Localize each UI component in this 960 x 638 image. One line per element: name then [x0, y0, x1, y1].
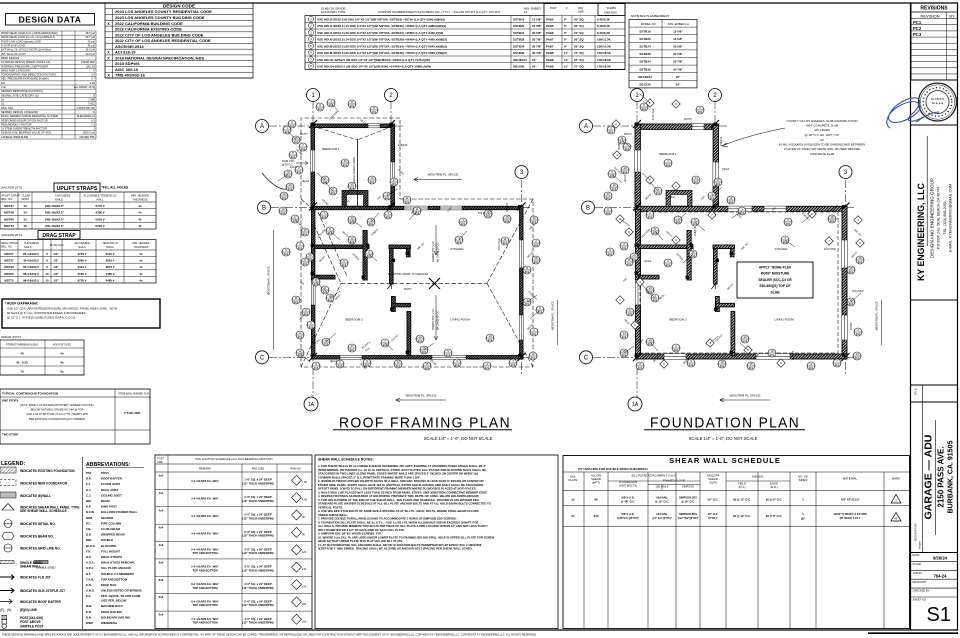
svg-text:301: 301 [856, 332, 861, 336]
svg-text:2022 CALIFORNIA EXISTING CODE: 2022 CALIFORNIA EXISTING CODE [115, 27, 182, 32]
svg-text:* ROOF DIAPHRAGM:: * ROOF DIAPHRAGM: [5, 302, 38, 306]
svg-text:10: 10 [23, 204, 27, 208]
svg-text:PC2: PC2 [913, 26, 922, 31]
svg-text:K.P.: K.P. [86, 505, 91, 509]
svg-text:301: 301 [385, 196, 390, 200]
svg-text:301: 301 [623, 170, 628, 174]
svg-text:20 5/8": 20 5/8" [673, 45, 683, 49]
svg-text:301: 301 [622, 246, 627, 250]
svg-text:4X10 HDR: 4X10 HDR [852, 290, 864, 293]
svg-text:DECK JOIST: DECK JOIST [101, 488, 119, 492]
svg-text:6195 #: 6195 # [78, 272, 87, 276]
main top wall [311, 206, 523, 209]
svg-text:PAD FOOTING SCHEDULE (ALL SOIL: PAD FOOTING SCHEDULE (ALL SOIL BEARING=1… [195, 457, 272, 461]
svg-text:TOP AND BOTTOM: TOP AND BOTTOM [192, 621, 218, 625]
grid bubble B [258, 201, 271, 214]
svg-text:301: 301 [674, 348, 679, 352]
svg-text:SEISMIC DESIGN CATEGORY: SEISMIC DESIGN CATEGORY [1, 110, 39, 114]
grid bubble 2 [385, 89, 398, 102]
grid line 1 [312, 101, 314, 398]
svg-text:21.7 psf: 21.7 psf [85, 35, 95, 39]
svg-text:DESIGN BY:: DESIGN BY: [913, 580, 928, 584]
svg-text:20 7/8": 20 7/8" [532, 38, 542, 42]
svg-text:PAB5: PAB5 [546, 17, 554, 21]
svg-text:301: 301 [383, 343, 388, 347]
svg-text:POST ABOVE: POST ABOVE [20, 620, 41, 624]
svg-text:REMARK: REMARK [199, 467, 211, 471]
svg-text:NAILS: NAILS [24, 245, 32, 249]
svg-text:(18) .18: (18) .18 [86, 64, 96, 68]
svg-text:SEALER (SCC-C3 CR: SEALER (SCC-C3 CR [758, 278, 792, 282]
svg-text:13: 13 [23, 211, 27, 215]
svg-text:10.0 psf: 10.0 psf [85, 52, 95, 56]
svg-text:WIND RISK CATEGORY: WIND RISK CATEGORY [1, 68, 31, 72]
svg-text:NAILS: NAILS [78, 245, 86, 249]
svg-text:6x6: 6x6 [159, 578, 164, 582]
svg-text:16 5/8": 16 5/8" [673, 37, 683, 41]
svg-text:ACI 318-19: ACI 318-19 [115, 50, 136, 55]
grid bubble 1A [304, 397, 318, 411]
svg-text:LIVING ROOM: LIVING ROOM [774, 317, 794, 321]
svg-text:No.C62776: No.C62776 [931, 97, 945, 101]
svg-text:SSTB16: SSTB16 [639, 29, 651, 33]
svg-text:20" SQ: 20" SQ [574, 17, 584, 21]
svg-text:WDS/TRIM PL. SPLICE: WDS/TRIM PL. SPLICE [551, 301, 555, 330]
svg-text:MIN. HEADER: MIN. HEADER [132, 241, 149, 245]
svg-text:6x6: 6x6 [159, 613, 164, 617]
svg-text:C.J.: C.J. [86, 493, 91, 497]
svg-text:26 7/8": 26 7/8" [673, 60, 683, 64]
svg-text:USE HDU11-SDS2.5 (30-SDS 1/4"X: USE HDU11-SDS2.5 (30-SDS 1/4"X2 1/2")(SB… [317, 58, 430, 62]
typical continuous foundation table [0, 389, 150, 444]
svg-text:SSTB24: SSTB24 [513, 31, 525, 35]
leader arc [262, 173, 292, 189]
wall openings [368, 124, 380, 128]
legend item INDICATES SHEAR WALL PANEL TYP [2, 504, 14, 511]
svg-text:CONCRETE SLAB: CONCRETE SLAB [810, 152, 834, 156]
svg-text:301: 301 [608, 252, 613, 256]
svg-text:1.8K: 1.8K [302, 481, 307, 484]
svg-text:SSTB28: SSTB28 [513, 38, 525, 42]
svg-text:301: 301 [314, 366, 319, 370]
svg-text:SSTB20: SSTB20 [639, 37, 651, 41]
svg-text:301: 301 [392, 182, 397, 186]
svg-text:SSTB34: SSTB34 [639, 60, 651, 64]
svg-text:301: 301 [783, 240, 788, 244]
sheet border top [0, 2, 958, 4]
svg-text:6.4K/8.3K: 6.4K/8.3K [597, 17, 611, 21]
svg-text:(E) , (N): (E) , (N) [0, 608, 11, 612]
roof plan detail tags [327, 99, 335, 107]
svg-text:2X8@16: 2X8@16 [720, 136, 723, 146]
svg-text:10K/11.5K: 10K/11.5K [597, 38, 612, 42]
svg-text:1A: 1A [308, 402, 315, 408]
svg-text:4x4 PST: 4x4 PST [792, 350, 795, 360]
svg-text:4x: 4x [138, 204, 142, 208]
svg-text:301: 301 [288, 187, 293, 191]
svg-text:POST: POST [157, 457, 164, 461]
svg-text:PL/SQ./LAG: PL/SQ./LAG [50, 244, 64, 247]
svg-text:EDGE NAILING: EDGE NAILING [101, 610, 123, 614]
svg-text:BEDROOM 2: BEDROOM 2 [669, 317, 687, 321]
drag strap table [0, 240, 156, 284]
grid line B [271, 207, 530, 209]
svg-text:JOB NO.: JOB NO. [913, 571, 924, 575]
shear wall schedule table [563, 456, 910, 629]
svg-text:301: 301 [328, 298, 333, 302]
svg-text:NAILING: NAILING [752, 475, 764, 479]
svg-text:SHEAR WALL: SHEAR WALL [20, 565, 41, 569]
svg-text:2022 CITY OF LOS ANGELES RESID: 2022 CITY OF LOS ANGELES RESIDENTIAL COD… [115, 38, 211, 43]
legend item INDICATES GRID LINE NO. [4, 544, 12, 552]
grid bubble B [582, 201, 595, 214]
svg-text:GRIPPLE POST: GRIPPLE POST [20, 625, 44, 629]
svg-text:STRENGTH/BREAK/UL/BLK: STRENGTH/BREAK/UL/BLK [6, 344, 39, 347]
svg-text:12 5/8": 12 5/8" [673, 29, 683, 33]
svg-text:27" SQ: 27" SQ [574, 65, 584, 69]
svg-text:INDICATES FLR JST: INDICATES FLR JST [20, 575, 51, 579]
svg-text:PC1: PC1 [913, 20, 922, 25]
svg-text:D.T.: D.T. [86, 572, 91, 576]
svg-text:301: 301 [343, 163, 348, 167]
grid line 2 [390, 101, 392, 212]
svg-text:BALLOON FRAMED WALL: BALLOON FRAMED WALL [101, 510, 138, 514]
svg-text:16.5 psf: 16.5 psf [85, 48, 95, 52]
svg-text:26 7/8": 26 7/8" [532, 44, 542, 48]
wing left wall [311, 124, 315, 210]
grid line C [269, 356, 530, 358]
svg-text:(E)4x4: (E)4x4 [624, 174, 627, 182]
svg-text:DBL.: DBL. [86, 538, 93, 542]
ridge dashed line [341, 282, 487, 284]
svg-text:MST72: MST72 [4, 224, 14, 228]
legend box [82, 457, 84, 629]
svg-text:301: 301 [386, 215, 391, 219]
svg-text:SCALE 1/4" = 1'-0", DO NOT SCA: SCALE 1/4" = 1'-0", DO NOT SCALE [424, 436, 493, 441]
svg-text:II: II [94, 68, 96, 72]
svg-text:301: 301 [367, 254, 372, 258]
svg-text:26.5 psf: 26.5 psf [85, 31, 95, 35]
interior wall vertical closet [363, 231, 367, 281]
svg-text:2X8@16: 2X8@16 [398, 144, 408, 147]
svg-text:THICKNESS: THICKNESS [134, 245, 149, 249]
svg-text:301: 301 [303, 262, 308, 266]
interior wall horizontal bedroom2 top [639, 245, 694, 249]
svg-text:301: 301 [676, 220, 681, 224]
svg-text:(E)4x4: (E)4x4 [302, 180, 310, 183]
svg-text:301: 301 [534, 260, 539, 264]
svg-text:14K: 14K [302, 568, 307, 571]
svg-text:WIREMESH: WIREMESH [101, 621, 117, 625]
svg-text:301: 301 [372, 110, 377, 114]
sheet border bottom [0, 629, 958, 631]
svg-text:USE HDU8-SDS2.5 (20-SDS 1/4"X2: USE HDU8-SDS2.5 (20-SDS 1/4"X2 1/2")(W/ … [317, 51, 447, 55]
svg-text:301: 301 [656, 191, 661, 195]
roof X mark [429, 278, 440, 289]
svg-text:6x: 6x [60, 369, 64, 373]
svg-text:301: 301 [461, 222, 466, 226]
svg-text:301: 301 [350, 240, 355, 244]
svg-text:4485 #: 4485 # [106, 272, 115, 276]
svg-text:301: 301 [281, 211, 286, 215]
svg-text:301: 301 [720, 364, 725, 368]
svg-text:2022 CITY OF LOS ANGELES BUILD: 2022 CITY OF LOS ANGELES BUILDING CODE [115, 32, 204, 37]
svg-text:4x4: 4x4 [159, 491, 164, 495]
svg-text:SEISMIC SITE CATEGORY (D): SEISMIC SITE CATEGORY (D) [1, 93, 39, 97]
svg-text:SIMPSON SDS: SIMPSON SDS [679, 496, 697, 500]
svg-text:@ 16" O.C.: @ 16" O.C. [681, 500, 695, 504]
svg-text:1.0: 1.0 [91, 73, 95, 77]
svg-text:REVISION: REVISION [920, 14, 939, 19]
svg-text:301: 301 [318, 107, 323, 111]
svg-text:4X10 HDR: 4X10 HDR [498, 238, 501, 250]
grid bubble A [580, 120, 593, 133]
posts [635, 205, 638, 208]
svg-text:VEL. PRESSURE EXPOSURE (Kz)(Kh: VEL. PRESSURE EXPOSURE (Kz)(Kh) [1, 77, 49, 81]
svg-text:HDR: HDR [86, 516, 93, 520]
svg-text:DROPPED BEAM: DROPPED BEAM [101, 533, 125, 537]
svg-text:BLK'G.: BLK'G. [86, 544, 96, 548]
roof diaphragm note box [2, 299, 160, 328]
svg-text:1.30: 1.30 [90, 81, 96, 85]
svg-text:6730 #: 6730 # [78, 278, 87, 282]
svg-text:11": 11" [564, 58, 569, 62]
svg-text:MST72: MST72 [4, 278, 14, 282]
svg-text:Project: Project [918, 541, 922, 549]
svg-text:16d NAIL: 16d NAIL [656, 512, 668, 516]
svg-text:SSTB24: SSTB24 [639, 45, 651, 49]
svg-text:4x4: 4x4 [159, 508, 164, 512]
grid line 3 [521, 180, 523, 375]
svg-text:301: 301 [729, 200, 734, 204]
svg-text:SIZE PER. BELOW: SIZE PER. BELOW [101, 599, 127, 603]
svg-text:@ 18" O.C. EA. WAY, TYP.: @ 18" O.C. EA. WAY, TYP. [805, 133, 840, 137]
svg-text:27" SQ: 27" SQ [574, 58, 584, 62]
svg-text:301: 301 [525, 302, 530, 306]
svg-text:B.F.W.: B.F.W. [86, 510, 95, 514]
svg-text:2-# 4 BARS EA. WAY: 2-# 4 BARS EA. WAY [191, 479, 219, 483]
svg-text:SSTB20: SSTB20 [513, 24, 525, 28]
svg-text:SB7/8X24: SB7/8X24 [638, 75, 652, 79]
svg-text:FLUSH BEAM: FLUSH BEAM [101, 527, 121, 531]
svg-text:GARAGE — ADU: GARAGE — ADU [923, 435, 935, 520]
svg-text:(N)4x4: (N)4x4 [644, 260, 652, 263]
svg-text:STANDARD PLATE WASHER SCHEDULE: STANDARD PLATE WASHER SCHEDULE AT ALL SI… [318, 502, 492, 506]
svg-text:(F.N.): (F.N.) [739, 485, 746, 489]
svg-text:301: 301 [303, 232, 308, 236]
svg-text:A: A [260, 124, 264, 130]
svg-text:301: 301 [622, 353, 627, 357]
svg-text:2150 PASS AVE.: 2150 PASS AVE. [937, 446, 946, 507]
svg-text:11": 11" [564, 51, 569, 55]
svg-text:MARK: MARK [892, 477, 900, 481]
svg-text:301: 301 [534, 243, 539, 247]
svg-text:301: 301 [653, 298, 658, 302]
svg-text:10: 10 [45, 278, 49, 282]
svg-text:301: 301 [786, 222, 791, 226]
svg-text:PAB7: PAB7 [546, 44, 554, 48]
svg-text:FLOOR LIVE LOAD: FLOOR LIVE LOAD [1, 44, 25, 48]
svg-text:DRAG STRAP: DRAG STRAP [1, 241, 18, 245]
svg-text:1/2": 1/2" [53, 265, 59, 269]
svg-text:4.5K: 4.5K [302, 499, 307, 502]
svg-text:301: 301 [446, 353, 451, 357]
svg-text:S1: S1 [1, 102, 5, 106]
svg-text:301: 301 [342, 263, 347, 267]
svg-text:301: 301 [284, 252, 289, 256]
svg-text:8d @ 8" O.C.: 8d @ 8" O.C. [766, 498, 783, 502]
svg-text:M.B.: M.B. [86, 604, 92, 608]
svg-text:THICKNESS: THICKNESS [55, 194, 71, 198]
svg-text:WDS/TRIM PL. SPLICE: WDS/TRIM PL. SPLICE [428, 173, 459, 177]
main top wall [635, 206, 847, 211]
svg-text:SLAB: SLAB [771, 290, 781, 294]
svg-text:HEADER: HEADER [101, 516, 114, 520]
pad footing schedule table [155, 455, 312, 629]
roof plan leader lines [331, 103, 339, 112]
svg-text:(#)*=SPACING FOR DOUBLE SIDED: (#)*=SPACING FOR DOUBLE SIDED SHEARWALL [578, 467, 649, 471]
svg-text:LIVING ROOM: LIVING ROOM [450, 317, 470, 321]
moisture sealer note box [737, 262, 813, 298]
svg-text:301: 301 [830, 219, 835, 223]
svg-text:24" SQ: 24" SQ [574, 31, 584, 35]
svg-text:(N)4" CONCRETE SLAB: (N)4" CONCRETE SLAB [806, 124, 838, 128]
svg-text:TENSION LD: TENSION LD [102, 241, 118, 245]
svg-text:4x: 4x [139, 259, 143, 263]
drag strap title box [38, 231, 80, 240]
svg-text:NAILS: NAILS [55, 198, 63, 202]
legend item INDICATES FLR JST [0, 575, 14, 580]
svg-text:MACHINE BOLT: MACHINE BOLT [101, 604, 123, 608]
svg-text:301: 301 [294, 300, 299, 304]
svg-text:(12" THICK-UNDERPIN): (12" THICK-UNDERPIN) [242, 603, 273, 607]
svg-text:BM.: BM. [86, 499, 91, 503]
svg-text:301: 301 [298, 335, 303, 339]
svg-text:ALLOWABLE TENSION LD: ALLOWABLE TENSION LD [83, 194, 116, 198]
svg-text:301: 301 [538, 310, 543, 314]
svg-text:30 7/8": 30 7/8" [673, 67, 683, 71]
svg-text:301: 301 [525, 270, 530, 274]
svg-text:REDUNDANCY FACTOR: REDUNDANCY FACTOR [1, 122, 32, 126]
svg-text:3875 #: 3875 # [106, 265, 115, 269]
svg-text:301: 301 [291, 155, 296, 159]
svg-text:301: 301 [486, 214, 491, 218]
svg-text:SSTB16: SSTB16 [513, 17, 525, 21]
svg-text:20K: 20K [302, 620, 307, 623]
svg-text:SIMPSON SDS: SIMPSON SDS [679, 512, 697, 516]
svg-text:301: 301 [606, 196, 611, 200]
svg-text:7/8" STUCCO: 7/8" STUCCO [841, 498, 860, 502]
svg-text:3285 #: 3285 # [78, 259, 87, 263]
svg-text:4x: 4x [138, 211, 142, 215]
svg-text:6730 #: 6730 # [95, 224, 105, 228]
svg-text:SHEAR /POST: SHEAR /POST [1, 335, 21, 339]
svg-text:12K: 12K [302, 551, 307, 554]
svg-text:@ 48" O.C.: @ 48" O.C. [621, 500, 636, 504]
svg-text:1/2": 1/2" [53, 278, 59, 282]
svg-text:D: D [93, 110, 95, 114]
grid bubble 3 [515, 166, 528, 179]
svg-text:PST: PST [86, 471, 92, 475]
svg-text:T.A.B.: T.A.B. [86, 577, 94, 581]
svg-text:301: 301 [532, 332, 537, 336]
svg-text:AND 2-#4 AT BOTTOM. (S.A.D.)TY: AND 2-#4 AT BOTTOM. (S.A.D.)TYP. (VERIFY… [26, 412, 87, 416]
svg-text:RESPONSE MODIFICATION FACTOR: RESPONSE MODIFICATION FACTOR [1, 118, 48, 122]
svg-text:EDGE NAIL: EDGE NAIL [101, 583, 117, 587]
svg-text:PAD SIZE: PAD SIZE [252, 467, 265, 471]
svg-text:20 psf: 20 psf [88, 39, 96, 43]
svg-text:POST: POST [101, 471, 109, 475]
svg-text:SEE SHEAR WALL SCHEDULE .: SEE SHEAR WALL SCHEDULE . [20, 509, 69, 513]
svg-text:26" SQ: 26" SQ [574, 38, 584, 42]
svg-text:CLIPS: CLIPS [709, 481, 717, 485]
svg-text:301: 301 [606, 211, 611, 215]
svg-text:301: 301 [418, 339, 423, 343]
svg-text:301: 301 [740, 211, 745, 215]
svg-text:P.C.: P.C. [86, 521, 91, 525]
corner ticks [633, 120, 641, 128]
svg-text:SSTB16: SSTB16 [506, 202, 509, 212]
svg-text:4-# 4 BARS EA. WAY: 4-# 4 BARS EA. WAY [191, 531, 219, 535]
svg-text:BELOW NATURAL GRADE W/ 2-#4 @: BELOW NATURAL GRADE W/ 2-#4 @ TOP [31, 408, 84, 412]
svg-text:764-24: 764-24 [933, 574, 947, 579]
svg-text:RG59” MOISTURE: RG59” MOISTURE [761, 272, 790, 276]
svg-text:HDU2: HDU2 [668, 196, 675, 199]
design data title box [6, 14, 95, 26]
grid bubble 1 [307, 89, 320, 102]
svg-text:301: 301 [531, 356, 536, 360]
kitchen wall lower [716, 297, 720, 312]
svg-text:20 5/8": 20 5/8" [532, 31, 542, 35]
wing top wall [311, 124, 395, 128]
svg-text:PC3: PC3 [913, 32, 922, 37]
design data table [0, 30, 96, 32]
legend item INDICATES BEAM NO. [2, 533, 14, 540]
svg-text:SHEET NO.: SHEET NO. [913, 598, 927, 602]
svg-text:2745 #: 2745 # [95, 204, 105, 208]
svg-text:FLOOR JOIST: FLOOR JOIST [101, 482, 121, 486]
svg-text:A: A [584, 124, 588, 130]
svg-text:10 MIL VISQUEEN (VISQUEEN TO B: 10 MIL VISQUEEN (VISQUEEN TO BE SANDWICH… [779, 143, 865, 147]
svg-text:DOUBLE: DOUBLE [101, 538, 113, 542]
svg-text:24": 24" [676, 83, 681, 87]
svg-text:301: 301 [698, 110, 703, 114]
svg-text:(46)-16dX2.5": (46)-16dX2.5" [45, 217, 65, 221]
svg-text:(8"OC)*: (8"OC)* [708, 516, 717, 520]
svg-text:F.B.: F.B. [86, 527, 91, 531]
svg-text:WWF: WWF [86, 621, 93, 625]
svg-text:S1: S1 [927, 604, 951, 626]
svg-text:MST37: MST37 [624, 133, 632, 136]
svg-text:301: 301 [691, 254, 696, 258]
svg-text:D: D [93, 93, 95, 97]
svg-text:9K: 9K [302, 533, 305, 536]
svg-text:16K: 16K [302, 586, 307, 589]
legend item INDICATES (E)WALL [0, 492, 16, 498]
svg-text:ROOF RAFTER: ROOF RAFTER [101, 477, 123, 481]
svg-text:INDICATES GLB JST/FLR JST: INDICATES GLB JST/FLR JST [20, 589, 65, 593]
svg-text:WDS/TRIM PL. SPLICE: WDS/TRIM PL. SPLICE [406, 394, 437, 398]
kitchen wall lower [392, 297, 396, 312]
svg-text:301: 301 [350, 348, 355, 352]
svg-text:WIND DESIGN: WIND DESIGN [1, 56, 19, 60]
svg-text:301: 301 [290, 124, 295, 128]
rafter arrows [434, 225, 438, 255]
svg-text:150/250 PSF: 150/250 PSF [79, 135, 95, 139]
svg-text:EMB./EDG.: EMB./EDG. [604, 11, 618, 15]
svg-text:REVISIONS: REVISIONS [920, 6, 948, 12]
svg-text:4485 #: 4485 # [106, 278, 115, 282]
